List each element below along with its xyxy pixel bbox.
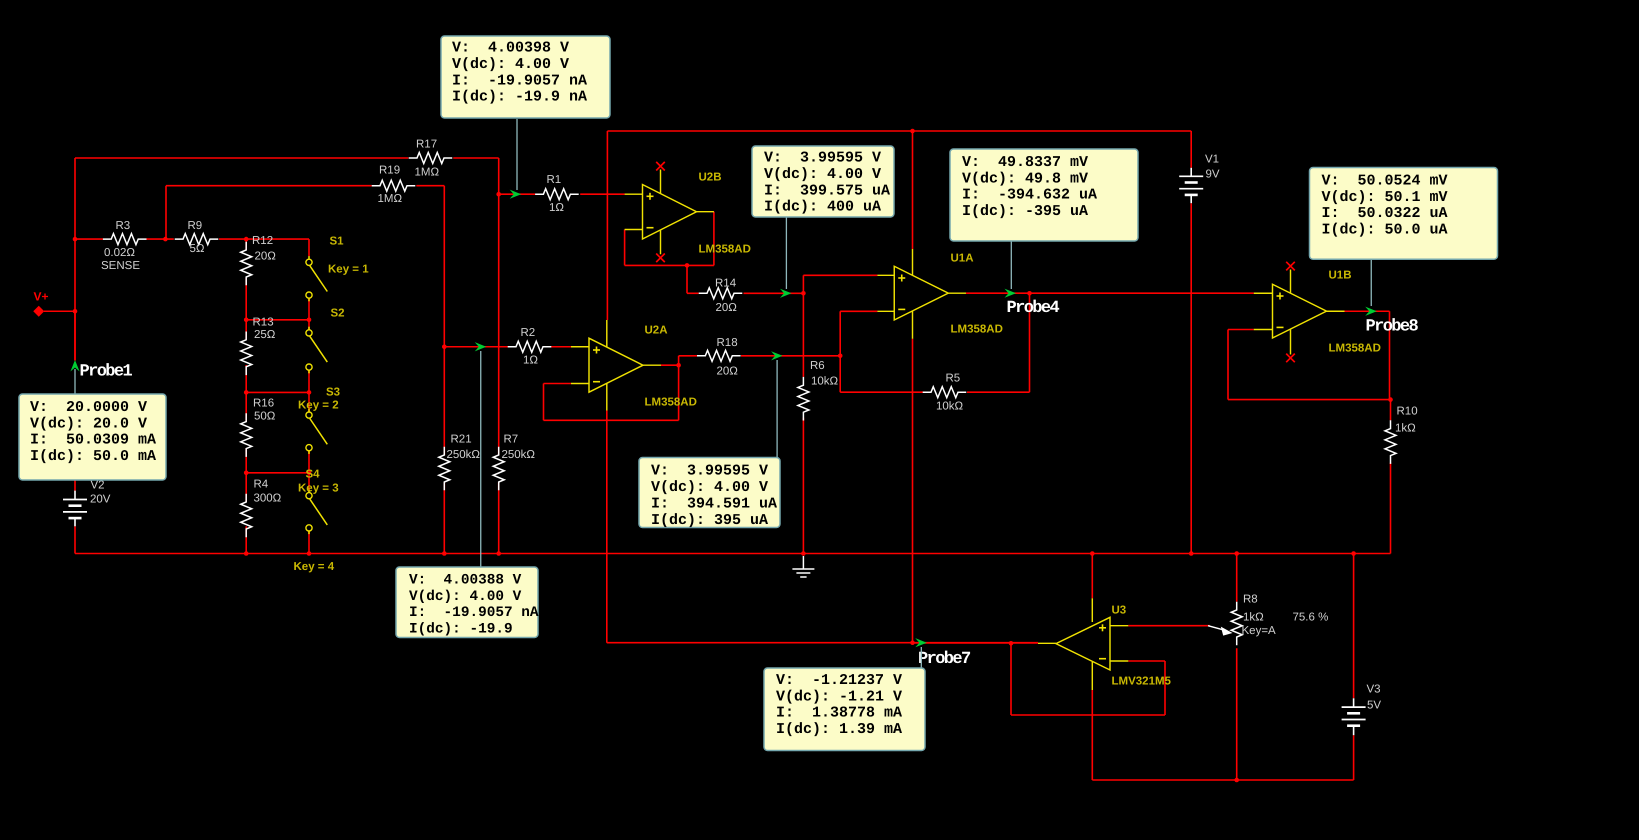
svg-text:I(dc): 50.0 uA: I(dc): 50.0 uA [1322, 221, 1448, 238]
probe arrow node A [510, 190, 522, 199]
svg-text:50Ω: 50Ω [254, 411, 276, 423]
svg-text:R3: R3 [116, 220, 131, 232]
svg-text:V(dc): 4.00 V: V(dc): 4.00 V [409, 589, 522, 605]
svg-text:Probe1: Probe1 [80, 363, 133, 382]
op-amp U2A [589, 338, 643, 392]
resistor R17 [409, 153, 453, 164]
wire R13 top segment [245, 320, 247, 340]
label Probe7 [918, 650, 971, 669]
label R12 [252, 235, 273, 247]
wire V3 bottom riser [1353, 735, 1355, 780]
label U3 LMV321M5 [1112, 676, 1172, 688]
probe arrow Probe1 [70, 360, 79, 372]
label R16 [253, 398, 274, 410]
svg-text:R8: R8 [1243, 594, 1258, 606]
svg-text:U1A: U1A [951, 253, 974, 265]
label R8 Key=A [1242, 625, 1277, 637]
wire R10 bottom to rail corner [1390, 463, 1392, 554]
op-amp U1B power pins [1290, 270, 1292, 355]
label Probe8 [1366, 318, 1419, 337]
svg-text:1kΩ: 1kΩ [1395, 423, 1416, 435]
svg-text:LM358AD: LM358AD [699, 244, 751, 256]
V+ terminal diamond [33, 306, 44, 317]
svg-text:SENSE: SENSE [101, 260, 140, 272]
ground [792, 556, 814, 577]
svg-text:Key = 1: Key = 1 [328, 264, 369, 276]
V+ supply rail top [607, 130, 1191, 132]
label U3 [1112, 605, 1127, 617]
wire U1A power pin to rail [912, 131, 914, 249]
svg-text:R12: R12 [252, 235, 273, 247]
label U2B [699, 172, 722, 184]
svg-text:I: 50.0322 uA: I: 50.0322 uA [1322, 205, 1448, 222]
svg-text:I(dc): 1.39 mA: I(dc): 1.39 mA [776, 721, 902, 738]
svg-text:V: 4.00398 V: V: 4.00398 V [452, 40, 569, 57]
svg-text:V(dc): 20.0 V: V(dc): 20.0 V [30, 415, 147, 432]
probe leader node A [516, 119, 518, 190]
resistor R10 [1385, 420, 1396, 464]
probe arrow R18 out [771, 351, 783, 360]
wire R8 top [1236, 554, 1238, 602]
label V1 value 9V [1206, 169, 1220, 181]
svg-text:Key=A: Key=A [1242, 625, 1277, 637]
svg-text:R5: R5 [946, 373, 961, 385]
label U2A [645, 325, 668, 337]
wire U2A Vee pin down to -1.21V net [606, 411, 608, 643]
svg-text:S3: S3 [326, 387, 340, 399]
svg-text:R19: R19 [379, 165, 400, 177]
label R5 value 10kohm [936, 401, 964, 413]
svg-text:I: 399.575 uA: I: 399.575 uA [764, 182, 890, 199]
svg-text:V2: V2 [91, 480, 105, 492]
wire R17 right to corner [453, 157, 499, 159]
svg-text:V3: V3 [1367, 684, 1381, 696]
probe box R18 [639, 458, 780, 529]
probe leader Probe1 [74, 369, 76, 394]
wire R19 row left segment [166, 185, 372, 187]
svg-text:10kΩ: 10kΩ [811, 376, 839, 388]
svg-text:I(dc): 395 uA: I(dc): 395 uA [651, 512, 768, 529]
wire R19 left riser [165, 186, 167, 239]
wire R18 riser [678, 356, 680, 365]
svg-text:300Ω: 300Ω [254, 493, 282, 505]
switch S3 [306, 409, 327, 454]
label R2 value 1ohm [523, 355, 538, 367]
svg-text:V(dc): 49.8 mV: V(dc): 49.8 mV [962, 170, 1088, 187]
label R18 value 20ohm [717, 366, 739, 378]
wire R21 top [443, 347, 445, 455]
svg-text:9V: 9V [1206, 169, 1220, 181]
svg-text:Key = 3: Key = 3 [298, 483, 339, 495]
op-amp U1B output pin [1327, 310, 1345, 312]
label R21 [451, 434, 472, 446]
svg-text:1MΩ: 1MΩ [415, 167, 440, 179]
no-connect X U1B top [1286, 262, 1295, 271]
probe box Probe8 [1310, 168, 1498, 260]
svg-text:V(dc): 4.00 V: V(dc): 4.00 V [452, 56, 569, 73]
wire S3-S4 column segment [308, 451, 310, 493]
svg-text:250kΩ: 250kΩ [447, 449, 481, 461]
svg-text:R2: R2 [521, 327, 536, 339]
probe arrow node B [475, 342, 487, 351]
wire U2A+ row [444, 346, 571, 348]
resistor R5 [923, 387, 967, 398]
wire U2A output [661, 364, 679, 366]
label Probe4 [1007, 299, 1060, 318]
resistor R2 [508, 341, 552, 352]
label S3 Key = 2 [298, 400, 339, 412]
battery V1 9V [1179, 168, 1203, 203]
svg-text:V: 4.00388 V: V: 4.00388 V [409, 572, 522, 588]
probe arrow R14 out [780, 289, 792, 298]
label S4 Key = 4 [294, 561, 335, 573]
label U1A LM358AD [951, 324, 1003, 336]
svg-text:LM358AD: LM358AD [645, 397, 697, 409]
svg-text:Key = 4: Key = 4 [294, 561, 335, 573]
wire R12 bottom segment [245, 278, 247, 320]
label V3 value 5V [1367, 700, 1381, 712]
label R21 value 250kohm [447, 449, 481, 461]
svg-text:I(dc): 50.0 mA: I(dc): 50.0 mA [30, 448, 156, 465]
no-connect X U2B top [656, 162, 665, 171]
svg-text:10kΩ: 10kΩ [936, 401, 964, 413]
wire R7 top lead [498, 450, 500, 456]
probe box Probe7 [764, 668, 925, 751]
label R6 [810, 360, 825, 372]
svg-text:I: -19.9057 nA: I: -19.9057 nA [409, 605, 539, 621]
label S3 [326, 387, 340, 399]
svg-text:R9: R9 [188, 220, 203, 232]
svg-text:V(dc): 4.00 V: V(dc): 4.00 V [764, 166, 881, 183]
wire R14 node up to U1A+ [803, 275, 877, 293]
resistor R4 [241, 494, 252, 538]
wire U3 feedback [1011, 643, 1165, 715]
svg-text:S2: S2 [331, 308, 345, 320]
resistor R3 [103, 234, 147, 245]
label R9 [188, 220, 203, 232]
wire R5 row [840, 391, 1029, 393]
svg-text:V: 20.0000 V: V: 20.0000 V [30, 399, 147, 416]
wire node A vertical down to R7 [498, 194, 500, 449]
svg-text:I: 394.591 uA: I: 394.591 uA [651, 495, 777, 512]
wire R21 bottom [443, 483, 445, 554]
label R19 value 1Mohm [378, 193, 403, 205]
wire S1 drop [308, 239, 310, 256]
svg-text:R17: R17 [416, 139, 437, 151]
svg-text:V: 3.99595 V: V: 3.99595 V [651, 463, 768, 480]
label R10 value 1kohm [1395, 423, 1416, 435]
wire R19 right to corner [416, 185, 444, 187]
label R4 [254, 479, 269, 491]
op-amp U2A input pins [571, 347, 589, 384]
svg-text:75.6 %: 75.6 % [1293, 612, 1329, 624]
svg-text:1kΩ: 1kΩ [1243, 612, 1264, 624]
svg-text:U3: U3 [1112, 605, 1127, 617]
probe box R14 [752, 146, 894, 217]
wire S2-S3 column segment [308, 370, 310, 412]
svg-text:V(dc): -1.21 V: V(dc): -1.21 V [776, 688, 902, 705]
svg-text:R6: R6 [810, 360, 825, 372]
probe arrow Probe8 [1365, 307, 1377, 316]
probe leader R18 [776, 360, 778, 458]
svg-text:I: 1.38778 mA: I: 1.38778 mA [776, 705, 902, 722]
svg-text:R21: R21 [451, 434, 472, 446]
resistor R9 [175, 234, 219, 245]
op-amp U1A input pins [877, 275, 894, 311]
svg-text:LM358AD: LM358AD [951, 324, 1003, 336]
wire U3 Vee pin down [1091, 690, 1093, 780]
label R7 value 250kohm [502, 449, 536, 461]
label U2A LM358AD [645, 397, 697, 409]
wire U1A Vee pin down to -1.21V net [912, 339, 914, 643]
probe leader node B [480, 351, 482, 567]
svg-text:1Ω: 1Ω [523, 355, 538, 367]
svg-text:I: -394.632 uA: I: -394.632 uA [962, 187, 1097, 204]
label R16 value 50ohm [254, 411, 276, 423]
op-amp U2A output pin [643, 364, 661, 366]
wire V+ rail top-left vertical [74, 158, 76, 361]
wire R8 bottom [1236, 648, 1238, 780]
potentiometer R8 wiper arrow [1208, 626, 1233, 636]
label R3 value 0.02ohm [104, 247, 135, 259]
wire R6 bottom [802, 418, 804, 554]
resistor R6 [798, 377, 809, 421]
wire R7 bottom [498, 483, 500, 554]
wire V2 bottom to ground rail [74, 526, 76, 553]
label R3 SENSE [101, 260, 140, 272]
probe arrow Probe4 [1005, 289, 1017, 298]
svg-text:1MΩ: 1MΩ [378, 193, 403, 205]
no-connect X U2B bottom [656, 254, 665, 263]
wire U3 Vcc pin to ground rail [1091, 554, 1093, 599]
label U2B LM358AD [699, 244, 751, 256]
label V2 value 20V [90, 494, 111, 506]
svg-text:Probe7: Probe7 [918, 650, 971, 669]
label R10 [1397, 406, 1418, 418]
wire R14 row [687, 292, 803, 294]
wire S4 to ground rail [308, 531, 310, 553]
potentiometer R8 [1231, 602, 1242, 646]
op-amp U1A output pin [948, 292, 966, 294]
svg-text:R14: R14 [715, 278, 737, 290]
no-connect X U1B bottom [1286, 354, 1295, 363]
svg-text:Key = 2: Key = 2 [298, 400, 339, 412]
label R13 value 25ohm [254, 329, 276, 341]
resistor R18 [697, 350, 741, 361]
resistor R14 [699, 288, 743, 299]
probe leader Probe7 [920, 647, 922, 668]
wire R4 bottom segment [245, 526, 247, 553]
label S1 Key = 1 [328, 264, 369, 276]
svg-text:S1: S1 [330, 236, 345, 248]
resistor R13 [241, 332, 252, 376]
wire R13-R16 node to switch column [246, 391, 309, 393]
switch S4 [306, 490, 327, 535]
label R1 [547, 174, 562, 186]
svg-text:V(dc): 4.00 V: V(dc): 4.00 V [651, 479, 768, 496]
op-amp U2B [643, 185, 697, 240]
svg-text:R18: R18 [717, 337, 738, 349]
label S4 [306, 469, 321, 481]
svg-text:0.02Ω: 0.02Ω [104, 247, 135, 259]
label R18 [717, 337, 738, 349]
label R19 [379, 165, 400, 177]
op-amp U1A power pins [912, 249, 914, 339]
label U1B LM358AD [1329, 343, 1381, 355]
ground rail bottom [75, 553, 1391, 555]
wire -1.21V net Probe7 row [607, 642, 1038, 644]
label V+ [34, 290, 49, 304]
resistor R21 [439, 447, 450, 491]
op-amp U3 input pins [1110, 626, 1128, 661]
label V1 [1205, 154, 1219, 166]
svg-text:LMV321M5: LMV321M5 [1112, 676, 1172, 688]
wire R6 top [802, 293, 804, 377]
svg-text:R10: R10 [1397, 406, 1418, 418]
wire U1B output [1345, 311, 1390, 399]
label R13 [253, 317, 274, 329]
svg-text:250kΩ: 250kΩ [502, 449, 536, 461]
label R17 [416, 139, 437, 151]
op-amp U1B input pins [1254, 293, 1273, 329]
label R9 value 5ohm [190, 243, 205, 255]
resistor R19 [372, 180, 416, 191]
svg-text:Probe8: Probe8 [1366, 318, 1419, 337]
probe leader Probe4 [1010, 241, 1012, 289]
label R12 value 20ohm [255, 251, 277, 263]
svg-text:20V: 20V [90, 494, 111, 506]
label S2 [331, 308, 345, 320]
wire R18 row [679, 355, 841, 357]
wire V+ rail down to U2A power pin [606, 131, 608, 320]
svg-text:U2A: U2A [645, 325, 668, 337]
svg-text:V: 50.0524 mV: V: 50.0524 mV [1322, 172, 1448, 189]
probe box node B [396, 567, 539, 638]
svg-text:V+: V+ [34, 290, 49, 304]
wire U3+ to R8 wiper [1128, 625, 1210, 627]
wire V1 top drop [1190, 131, 1192, 168]
svg-text:20Ω: 20Ω [716, 302, 738, 314]
svg-text:R16: R16 [253, 398, 274, 410]
op-amp U2A power pins [606, 320, 608, 411]
label R4 value 300ohm [254, 493, 282, 505]
label R1 value 1ohm [549, 202, 564, 214]
label R14 value 20ohm [716, 302, 738, 314]
switch S2 [306, 327, 327, 374]
svg-text:I(dc): -19.9: I(dc): -19.9 [409, 621, 513, 637]
label U1A [951, 253, 974, 265]
label R8 percent 75.6 [1293, 612, 1329, 624]
wire R13 bottom segment [245, 365, 247, 392]
wire U2A feedback [544, 365, 679, 420]
label R8 value 1kohm [1243, 612, 1264, 624]
wire V2 top [74, 311, 76, 490]
svg-text:U1B: U1B [1329, 270, 1352, 282]
wire main sense row R3 R9 [75, 238, 309, 240]
probe arrow Probe7 [915, 638, 927, 647]
svg-text:R1: R1 [547, 174, 562, 186]
label V3 [1367, 684, 1381, 696]
op-amp U1A [894, 266, 948, 320]
probe box Probe1 [19, 394, 166, 480]
svg-text:I(dc): 400 uA: I(dc): 400 uA [764, 199, 881, 216]
op-amp U3 output pin [1038, 642, 1056, 644]
svg-text:V: -1.21237 V: V: -1.21237 V [776, 672, 902, 689]
wire U3 output row [913, 642, 1039, 644]
probe box node A [441, 36, 610, 118]
op-amp U3 (mirrored) [1056, 617, 1110, 670]
resistor R16 [241, 413, 252, 457]
svg-text:R4: R4 [254, 479, 269, 491]
label R8 [1243, 594, 1258, 606]
svg-text:25Ω: 25Ω [254, 329, 276, 341]
svg-text:I(dc): -395 uA: I(dc): -395 uA [962, 203, 1088, 220]
label R2 [521, 327, 536, 339]
probe leader R14 [785, 217, 787, 289]
label S1 [330, 236, 345, 248]
label R17 value 1Mohm [415, 167, 440, 179]
wire R12 top segment [245, 239, 247, 250]
label R5 [946, 373, 961, 385]
label S4 Key = 3 [298, 483, 339, 495]
wire -5V bottom row [1092, 779, 1353, 781]
wire U1A output row to U1B+ [966, 292, 1254, 294]
wire U1A- riser [840, 311, 877, 392]
svg-text:I(dc): -19.9 nA: I(dc): -19.9 nA [452, 89, 587, 106]
svg-text:I: -19.9057 nA: I: -19.9057 nA [452, 72, 587, 89]
op-amp U2B input pins [625, 194, 643, 229]
resistor R7 [493, 447, 504, 491]
op-amp U3 power pins [1091, 598, 1093, 690]
wire R16-R4 node to switch column [246, 472, 309, 474]
wire R16 bottom segment [245, 448, 247, 472]
resistor R12 [241, 242, 252, 286]
label Probe1 [80, 363, 133, 382]
svg-text:20Ω: 20Ω [717, 366, 739, 378]
op-amp U2B power pins [660, 170, 662, 255]
wire node B vertical R19 to U2A+ [443, 186, 445, 347]
wire R12-R13 node to switch column [246, 319, 309, 321]
label R14 [715, 278, 737, 290]
label R3 [116, 220, 131, 232]
svg-text:5Ω: 5Ω [190, 243, 205, 255]
label U1B [1329, 270, 1352, 282]
label R7 [504, 434, 519, 446]
wire R16 top segment [245, 392, 247, 421]
label R6 value 10kohm [811, 376, 839, 388]
svg-text:V: 3.99595 V: V: 3.99595 V [764, 150, 881, 167]
svg-text:S4: S4 [306, 469, 321, 481]
svg-text:20Ω: 20Ω [255, 251, 277, 263]
wire U2B feedback [625, 212, 714, 266]
wire U1B feedback [1228, 330, 1391, 400]
wire S1-S2 column segment [308, 298, 310, 330]
switch S1 [306, 256, 327, 301]
svg-text:V1: V1 [1205, 154, 1219, 166]
wire R5 to output node [1029, 293, 1031, 392]
svg-text:I: 50.0309 mA: I: 50.0309 mA [30, 432, 156, 449]
svg-text:V(dc): 50.1 mV: V(dc): 50.1 mV [1322, 189, 1448, 206]
svg-text:R7: R7 [504, 434, 519, 446]
wire V3 top to ground rail [1353, 554, 1355, 699]
wire R10 top [1390, 400, 1392, 421]
svg-text:R13: R13 [253, 317, 274, 329]
probe box Probe4 [950, 149, 1138, 241]
svg-text:Probe4: Probe4 [1007, 299, 1060, 318]
svg-text:U2B: U2B [699, 172, 722, 184]
battery V2 20V [63, 491, 87, 527]
wire R1 row [499, 193, 625, 195]
